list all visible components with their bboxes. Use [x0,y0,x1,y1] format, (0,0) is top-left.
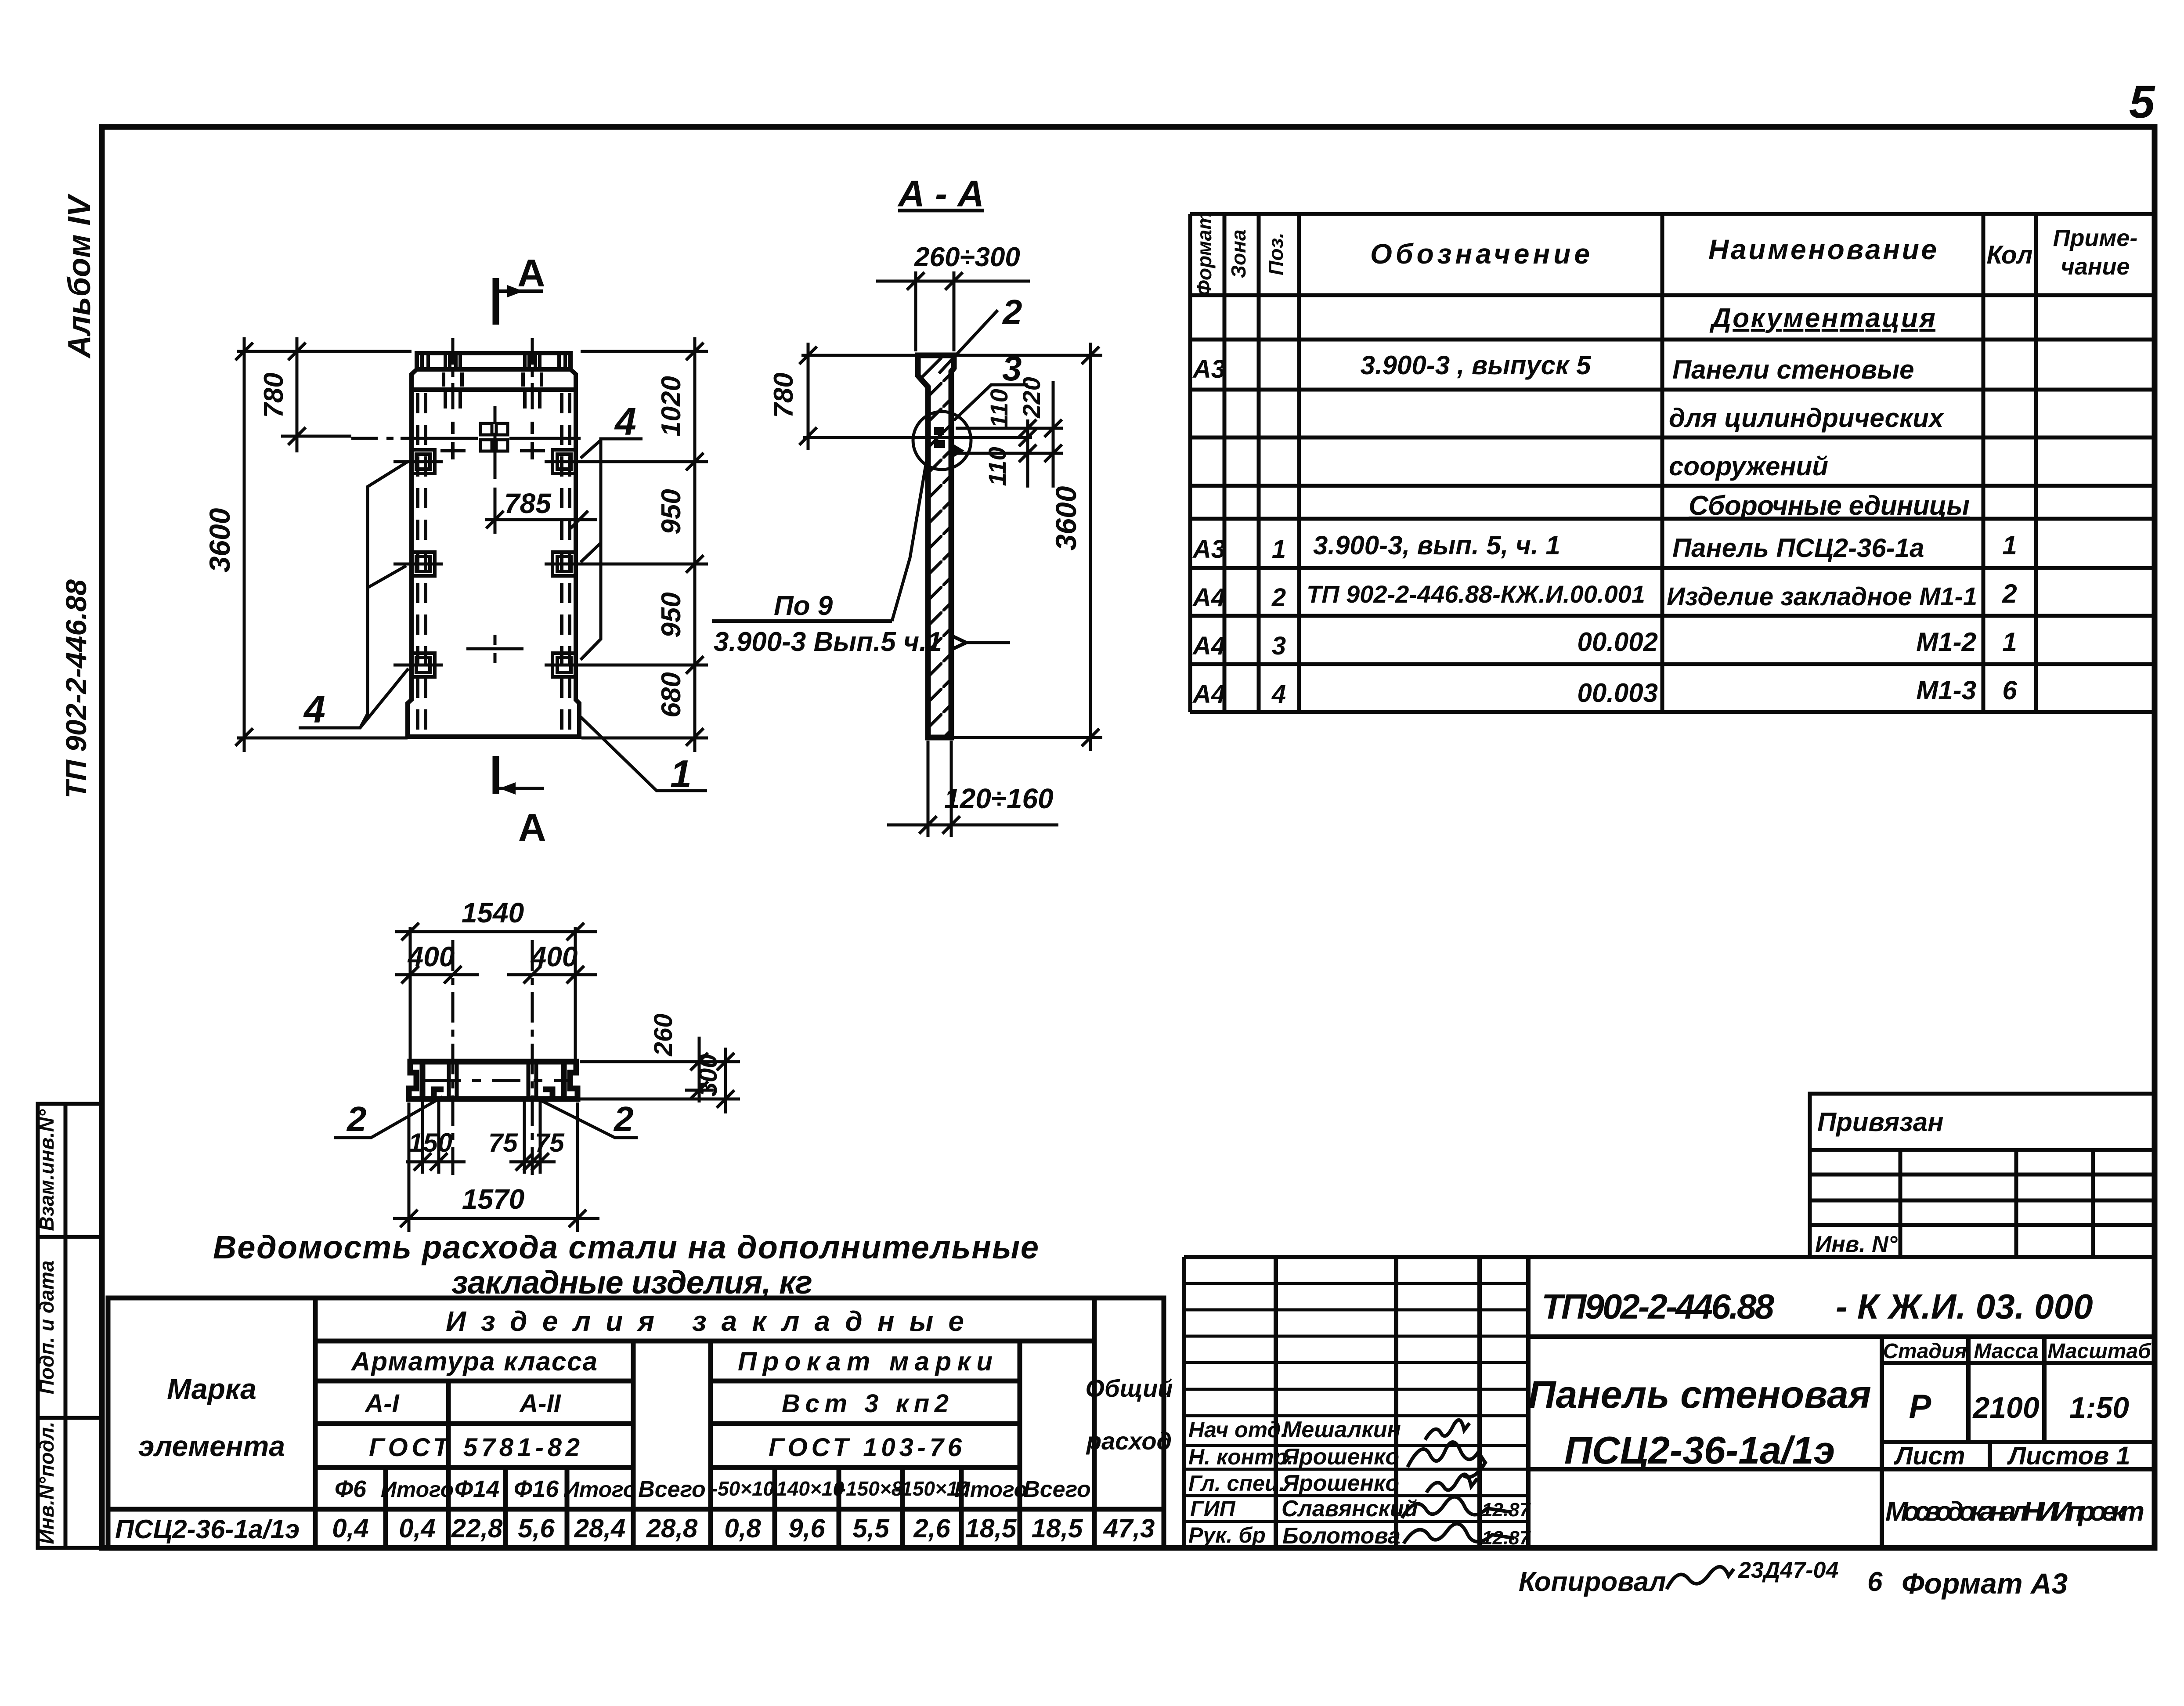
svg-text:Славянский: Славянский [1282,1496,1418,1522]
svg-text:6: 6 [2002,676,2017,705]
svg-text:для цилиндрических: для цилиндрических [1669,403,1945,433]
svg-text:Ярошенко: Ярошенко [1282,1471,1399,1496]
svg-text:1: 1 [1272,535,1286,564]
svg-text:Листов 1: Листов 1 [2007,1442,2130,1470]
svg-text:Лист: Лист [1893,1442,1965,1470]
svg-text:5: 5 [2129,76,2155,128]
svg-text:А4: А4 [1192,583,1225,612]
svg-text:Стадия: Стадия [1883,1340,1967,1363]
svg-text:Документация: Документация [1709,303,1935,333]
svg-text:75: 75 [488,1128,518,1157]
svg-text:М1-2: М1-2 [1916,627,1976,657]
svg-text:1020: 1020 [656,376,686,437]
svg-text:3600: 3600 [1050,486,1082,550]
svg-text:110: 110 [983,447,1011,486]
svg-text:950: 950 [656,489,686,534]
svg-text:Итого: Итого [381,1477,454,1502]
svg-text:150: 150 [408,1128,452,1157]
svg-text:4: 4 [303,687,325,731]
svg-text:Масса: Масса [1974,1340,2038,1363]
svg-text:780: 780 [259,372,289,418]
svg-text:3.900-3, вып. 5, ч. 1: 3.900-3, вып. 5, ч. 1 [1313,531,1560,560]
svg-text:ГОСТ 103-76: ГОСТ 103-76 [769,1433,962,1462]
svg-text:Всего: Всего [638,1477,706,1502]
svg-text:Болотова: Болотова [1282,1523,1401,1549]
svg-text:2: 2 [346,1099,367,1139]
svg-text:ПСЦ2-36-1а/1э: ПСЦ2-36-1а/1э [115,1514,300,1544]
svg-text:Ведомость расхода стали на: Ведомость расхода стали на дополнительны… [213,1229,1039,1265]
svg-text:- К Ж.И. 03. 000: - К Ж.И. 03. 000 [1836,1287,2093,1326]
svg-text:Ярошенко: Ярошенко [1282,1444,1399,1470]
svg-text:00.003: 00.003 [1577,678,1658,708]
svg-text:элемента: элемента [138,1430,285,1462]
svg-text:ПСЦ2-36-1а/1э: ПСЦ2-36-1а/1э [1564,1428,1835,1472]
svg-text:А: А [517,251,545,295]
svg-text:Итого: Итого [563,1477,636,1502]
svg-text:1: 1 [2002,627,2017,657]
svg-text:1: 1 [2002,531,2017,560]
svg-text:расход: расход [1086,1427,1172,1455]
svg-text:А - А: А - А [897,173,984,214]
svg-text:2100: 2100 [1972,1391,2039,1424]
svg-text:300: 300 [694,1054,722,1097]
svg-text:Масштаб: Масштаб [2047,1340,2152,1363]
svg-text:Приме-: Приме- [2053,225,2138,251]
svg-text:-150×8: -150×8 [839,1477,903,1500]
svg-text:ТП902-2-446.88: ТП902-2-446.88 [1541,1287,1775,1326]
svg-text:Подп. и дата: Подп. и дата [35,1261,58,1395]
svg-text:4: 4 [1271,680,1286,708]
svg-text:260÷300: 260÷300 [914,242,1020,272]
svg-text:А-I: А-I [364,1389,400,1418]
svg-text:Формат А3: Формат А3 [1902,1567,2068,1600]
svg-text:Кол: Кол [1987,241,2033,269]
svg-text:сооружений: сооружений [1669,452,1828,481]
svg-text:3.900-3 , выпуск 5: 3.900-3 , выпуск 5 [1361,351,1592,380]
svg-text:Панели стеновые: Панели стеновые [1672,355,1914,384]
svg-text:Общий: Общий [1085,1374,1173,1402]
svg-text:Н. контр.: Н. контр. [1188,1445,1293,1469]
svg-text:28,4: 28,4 [574,1514,626,1543]
svg-text:1:50: 1:50 [2069,1391,2129,1424]
svg-text:Арматура класса: Арматура класса [350,1347,597,1376]
svg-text:А-II: А-II [519,1389,561,1418]
svg-text:0,4: 0,4 [332,1514,368,1543]
svg-text:М1-3: М1-3 [1916,676,1976,705]
svg-text:Зона: Зона [1227,229,1250,278]
svg-text:Всего: Всего [1023,1477,1091,1502]
svg-text:Формат: Формат [1193,212,1216,296]
svg-text:Мешалкин: Мешалкин [1282,1417,1401,1442]
svg-text:Привязан: Привязан [1817,1107,1943,1137]
svg-text:ГИП: ГИП [1190,1496,1236,1521]
svg-text:260: 260 [649,1014,678,1057]
svg-text:Гл. спец.: Гл. спец. [1188,1471,1285,1496]
svg-text:А3: А3 [1192,355,1225,383]
svg-text:2: 2 [613,1099,634,1139]
svg-text:Итого: Итого [954,1477,1027,1502]
svg-text:1570: 1570 [462,1183,524,1215]
svg-text:Панель ПСЦ2-36-1а: Панель ПСЦ2-36-1а [1672,533,1924,563]
svg-text:Взам.инв.N°: Взам.инв.N° [35,1109,58,1231]
svg-text:3600: 3600 [203,508,236,572]
svg-text:Инв.N°подл.: Инв.N°подл. [35,1421,58,1544]
svg-text:А4: А4 [1192,632,1225,660]
svg-text:Панель стеновая: Панель стеновая [1528,1373,1871,1416]
svg-text:ГОСТ 5781-82: ГОСТ 5781-82 [369,1433,580,1462]
svg-text:3: 3 [1002,349,1022,388]
svg-text:Изделие закладное М1-1: Изделие закладное М1-1 [1667,582,1977,611]
svg-text:А: А [518,806,546,849]
svg-text:Марка: Марка [167,1373,256,1405]
svg-text:А3: А3 [1192,535,1225,564]
svg-text:ТП 902-2-446.88: ТП 902-2-446.88 [60,579,92,799]
svg-text:Р: Р [1909,1388,1931,1425]
svg-text:Альбом IV: Альбом IV [62,193,97,359]
svg-text:400: 400 [407,941,455,972]
svg-text:3.900-3 Вып.5 ч.1: 3.900-3 Вып.5 ч.1 [714,627,942,657]
svg-text:Ф16: Ф16 [514,1476,559,1502]
svg-text:А4: А4 [1192,680,1225,708]
svg-text:2: 2 [1002,293,1022,332]
svg-text:Сборочные единицы: Сборочные единицы [1689,491,1970,521]
svg-text:Обозначение: Обозначение [1370,238,1590,270]
svg-text:Инв. N°: Инв. N° [1815,1232,1898,1257]
svg-text:110: 110 [985,389,1013,428]
svg-text:5,6: 5,6 [518,1514,555,1543]
svg-text:785: 785 [504,488,552,519]
svg-text:28,8: 28,8 [646,1514,698,1543]
svg-text:Ф14: Ф14 [455,1476,499,1502]
svg-text:-50×10: -50×10 [711,1477,775,1500]
svg-text:00.002: 00.002 [1577,627,1658,657]
svg-text:9,6: 9,6 [788,1514,825,1543]
svg-text:закладные изделия, кг: закладные изделия, кг [451,1264,812,1301]
svg-text:5,5: 5,5 [852,1514,890,1543]
svg-text:Копировал: Копировал [1519,1567,1666,1597]
svg-text:4: 4 [614,400,636,443]
svg-text:Изделия закладные: Изделия закладные [446,1305,964,1337]
svg-text:120÷160: 120÷160 [944,783,1054,814]
svg-text:ТП 902-2-446.88-КЖ.И.00.001: ТП 902-2-446.88-КЖ.И.00.001 [1307,580,1645,608]
svg-text:23Д47-04: 23Д47-04 [1738,1558,1838,1583]
svg-text:18,5: 18,5 [1032,1514,1083,1543]
svg-text:-140×10: -140×10 [769,1477,845,1500]
svg-text:Наименование: Наименование [1708,234,1937,265]
svg-text:МосводоканалНИИпроект: МосводоканалНИИпроект [1885,1496,2144,1527]
svg-text:22,8: 22,8 [451,1514,503,1543]
svg-text:3: 3 [1272,632,1286,660]
svg-text:6: 6 [1867,1567,1883,1597]
svg-text:1540: 1540 [462,897,524,929]
svg-text:75: 75 [535,1128,565,1157]
svg-text:47,3: 47,3 [1103,1514,1155,1543]
svg-text:680: 680 [656,672,686,717]
svg-text:Нач отд.: Нач отд. [1188,1417,1287,1442]
svg-text:0,4: 0,4 [399,1514,435,1543]
svg-text:Рук. бр: Рук. бр [1188,1523,1266,1547]
svg-text:2: 2 [2002,579,2017,608]
svg-text:950: 950 [656,592,686,637]
svg-text:18,5: 18,5 [965,1514,1017,1543]
svg-text:1: 1 [670,752,692,795]
svg-text:0,8: 0,8 [724,1514,761,1543]
svg-text:Поз.: Поз. [1264,232,1287,275]
svg-text:2: 2 [1271,583,1286,612]
svg-text:780: 780 [769,372,799,418]
svg-text:400: 400 [530,941,578,972]
svg-text:Вст 3 кп2: Вст 3 кп2 [782,1389,949,1418]
svg-text:По 9: По 9 [774,591,833,621]
svg-text:Ф6: Ф6 [335,1476,367,1502]
svg-text:чание: чание [2061,253,2130,280]
svg-text:2,6: 2,6 [913,1514,950,1543]
